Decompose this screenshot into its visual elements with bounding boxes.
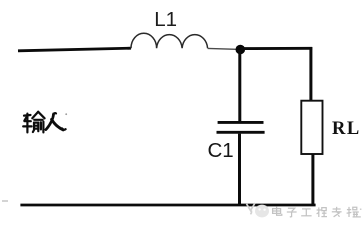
wire bottom return [20, 204, 315, 207]
artifact dot right of 入 [65, 113, 67, 115]
wire inductor to node [208, 47, 237, 50]
char 辑 [347, 209, 351, 211]
wire input top [18, 48, 131, 51]
svg-text:C1: C1 [208, 139, 234, 162]
char 程 [317, 209, 322, 211]
char 子 [288, 208, 295, 211]
char 输 radical 车 [24, 114, 31, 117]
char 专 [333, 208, 341, 210]
left edge artifact dash [2, 200, 8, 202]
watermark icon [247, 203, 256, 214]
capacitor C1 top plate [218, 121, 264, 124]
node junction [236, 45, 246, 55]
char 入 [46, 113, 66, 130]
capacitor C1 bottom plate [217, 131, 265, 134]
char 输 right part 俞 [32, 112, 38, 119]
wire node down to capacitor [238, 50, 241, 121]
svg-text:L1: L1 [154, 8, 177, 31]
char 电 [273, 209, 281, 214]
wire capacitor bottom lead [238, 134, 241, 205]
wire node to corner [241, 47, 313, 50]
char 工 [302, 208, 311, 210]
resistor RL [301, 101, 322, 154]
watermark text 电子工程专辑 [273, 207, 362, 217]
wire resistor bottom stub [311, 154, 314, 206]
inductor L1 [131, 33, 208, 48]
label 输入 (input) drawn as strokes [23, 112, 44, 133]
svg-text:RL: RL [332, 119, 361, 139]
wire right vertical to resistor [309, 47, 312, 101]
